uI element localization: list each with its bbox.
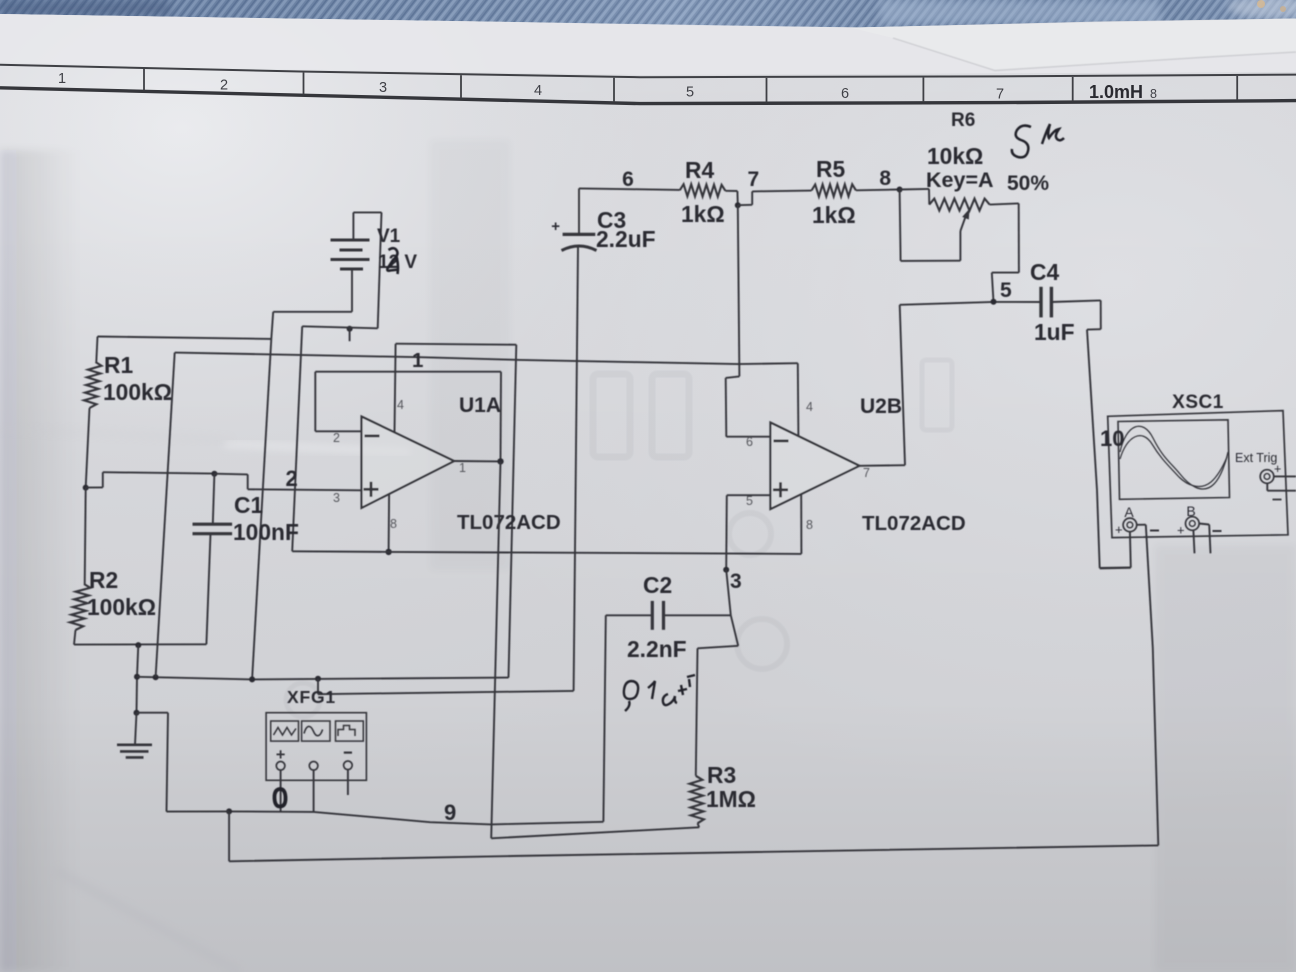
label R3 value [706, 762, 756, 812]
junction U1A output [497, 458, 503, 464]
svg-text:3: 3 [333, 491, 340, 505]
svg-text:XFG1: XFG1 [287, 687, 336, 707]
wire C4 to scope A [1051, 300, 1130, 568]
wire scope A minus drop [1146, 525, 1159, 846]
svg-text:2: 2 [286, 466, 298, 491]
svg-text:C1: C1 [234, 492, 263, 518]
svg-text:3: 3 [730, 570, 742, 593]
label C4 value [1030, 259, 1075, 345]
svg-text:50%: 50% [1007, 172, 1049, 195]
svg-text:+: + [1274, 462, 1281, 476]
svg-text:TL072ACD: TL072ACD [457, 511, 561, 534]
svg-text:10: 10 [1100, 426, 1124, 451]
scope ext trig terminal [1260, 470, 1274, 484]
svg-text:A: A [1124, 504, 1134, 520]
svg-text:R6: R6 [951, 110, 975, 131]
svg-text:1: 1 [459, 461, 466, 475]
svg-text:R1: R1 [104, 352, 133, 378]
svg-text:7: 7 [996, 87, 1004, 103]
wire node 7 to R5 [738, 191, 812, 206]
node 0 handwritten [274, 789, 285, 807]
svg-text:4: 4 [806, 400, 813, 414]
wire node1 drop [156, 353, 175, 678]
wire scope A plus stub [1137, 524, 1146, 526]
junction rail ground column [135, 642, 141, 648]
svg-text:6: 6 [746, 435, 753, 449]
wire U2B plus input loop [726, 495, 770, 570]
wire R2 bottom rail [74, 643, 206, 645]
wire U2B minus input loop [726, 376, 771, 436]
wire opamp supply rail [292, 551, 801, 554]
label R5 value [812, 156, 856, 228]
junction ground row C [249, 676, 255, 682]
wire node 5 [900, 302, 1041, 305]
svg-text:7: 7 [863, 466, 870, 480]
wire node 9 run [229, 811, 603, 824]
wire ext trig stubs [1267, 476, 1296, 490]
svg-text:8: 8 [806, 518, 813, 532]
wire node 3 to R3 [696, 615, 738, 776]
junction node 3 [723, 567, 729, 573]
label R6 value [926, 143, 1049, 195]
wire scope B stubs [1193, 524, 1210, 554]
junction node 5 [991, 299, 997, 305]
wire V1 plus down to opamp supply rail [292, 326, 302, 551]
junction ground mid [134, 710, 140, 716]
op-amp U2B [770, 423, 859, 510]
svg-text:TL072ACD: TL072ACD [862, 512, 966, 535]
wire divider to node 2 [86, 472, 215, 487]
svg-text:10kΩ: 10kΩ [927, 143, 983, 169]
svg-text:Key=A: Key=A [926, 168, 994, 192]
svg-text:100kΩ: 100kΩ [103, 379, 172, 405]
resistor R3 [690, 776, 704, 828]
wire U2B pin4 [797, 363, 800, 436]
svg-text:1MΩ: 1MΩ [706, 786, 756, 812]
wire U1A output [454, 460, 500, 462]
svg-text:B: B [1186, 503, 1195, 519]
wire U1A pin8 [388, 494, 391, 552]
svg-text:1kΩ: 1kΩ [812, 202, 856, 228]
svg-text:1kΩ: 1kΩ [681, 201, 725, 227]
svg-text:+: + [1115, 522, 1123, 537]
svg-text:9: 9 [444, 800, 456, 825]
svg-text:V1: V1 [377, 226, 401, 247]
wire XFG1 plus stub [280, 770, 282, 812]
wire XFG1 minus stub [347, 770, 349, 795]
svg-text:R5: R5 [816, 156, 845, 182]
svg-text:5: 5 [686, 85, 694, 101]
capacitor C3 [562, 188, 597, 691]
svg-text:XSC1: XSC1 [1172, 392, 1224, 413]
svg-text:6: 6 [841, 86, 849, 102]
label C2 value [627, 572, 687, 662]
wire node 1 rail [175, 353, 798, 365]
wire U2B output to node 5 [859, 305, 905, 466]
wire node 6 [579, 188, 680, 190]
junction R1 R2 [83, 485, 89, 491]
svg-text:Ext Trig: Ext Trig [1235, 451, 1277, 465]
op-amp U1A [362, 417, 455, 508]
wire battery minus to R1 top [98, 337, 272, 339]
svg-text:2: 2 [333, 431, 340, 445]
wire V1 plus junction row [302, 326, 378, 341]
handwritten 5k annotation [1012, 124, 1064, 157]
potentiometer R6 [900, 189, 1019, 302]
svg-text:R3: R3 [707, 762, 736, 788]
svg-text:1uF: 1uF [1034, 319, 1075, 345]
resistor R1 [84, 337, 102, 488]
wire node 7 column [738, 205, 740, 376]
svg-text:U2B: U2B [860, 395, 902, 418]
label V1 value [377, 226, 417, 273]
wire R3 bottom to U1A output [491, 461, 699, 838]
svg-text:2: 2 [220, 78, 228, 94]
wire U2B pin8 [800, 494, 802, 554]
svg-text:4: 4 [397, 398, 404, 412]
wire U1A pin4 net [395, 344, 517, 678]
junction supply rail [385, 549, 391, 555]
battery V1 [331, 212, 382, 328]
svg-text:3: 3 [379, 80, 387, 96]
label C1 value [233, 492, 299, 545]
label C3 value [596, 207, 656, 252]
label R2 value [87, 567, 156, 620]
junction node 9 [226, 808, 232, 814]
junction V1 plus [347, 326, 353, 332]
handwritten 2 over V1 value [387, 248, 399, 274]
svg-text:8: 8 [879, 167, 891, 190]
junction ground row B [153, 674, 159, 680]
junction ground top [134, 674, 140, 680]
wire bottom return rail [229, 811, 1158, 861]
wire ground row [137, 677, 509, 680]
svg-text:6: 6 [622, 168, 634, 191]
function generator XFG1 [266, 713, 366, 781]
svg-text:8: 8 [390, 517, 397, 531]
svg-text:C4: C4 [1030, 259, 1059, 285]
svg-text:4: 4 [534, 83, 542, 99]
svg-text:+: + [551, 218, 560, 235]
wire XFG1 common stub [313, 770, 315, 812]
svg-text:2.2nF: 2.2nF [627, 636, 687, 662]
svg-text:1.0mH: 1.0mH [1089, 82, 1143, 102]
resistor R5 [812, 184, 900, 196]
capacitor C1 [193, 474, 233, 645]
svg-text:100nF: 100nF [233, 519, 299, 545]
label R4 value [681, 157, 725, 227]
wire ground row to C3 column [318, 679, 574, 694]
svg-text:1: 1 [412, 349, 423, 372]
resistor R4 [680, 184, 738, 205]
svg-text:R4: R4 [685, 157, 714, 183]
svg-text:1: 1 [58, 71, 66, 87]
capacitor C4 [1041, 287, 1051, 318]
label R1 value [103, 352, 172, 405]
svg-text:8: 8 [1150, 87, 1157, 101]
svg-text:R2: R2 [89, 567, 118, 593]
ground [117, 713, 152, 758]
wire V1 minus to rail [271, 312, 352, 339]
label scope B [1177, 503, 1222, 538]
svg-text:5: 5 [1000, 279, 1012, 302]
wire ground to node 9 run [137, 713, 230, 812]
wire node 3 down [726, 570, 731, 616]
svg-text:100kΩ: 100kΩ [87, 594, 156, 620]
wire U1A feedback box [315, 372, 501, 462]
junction node 8 [897, 187, 903, 193]
svg-text:7: 7 [748, 168, 760, 191]
capacitor C2 [603, 601, 730, 822]
label scope A [1115, 504, 1159, 537]
svg-text:+: + [1177, 523, 1185, 538]
junction node 7 [735, 202, 741, 208]
handwritten 0.1nF annotation [624, 675, 695, 711]
svg-text:2.2uF: 2.2uF [596, 226, 656, 252]
svg-text:U1A: U1A [459, 394, 501, 417]
wire node 2 to opamp U1A input [214, 474, 361, 491]
scope channel B terminal [1186, 517, 1200, 531]
resistor R2 [70, 488, 90, 645]
scope channel A terminal [1123, 518, 1137, 532]
label ext trig [1235, 451, 1282, 500]
oscilloscope XSC1 [1108, 411, 1288, 538]
svg-text:C2: C2 [643, 572, 672, 598]
wire ground column [137, 645, 139, 713]
junction node 2 [211, 471, 217, 477]
junction ground row D [315, 676, 321, 682]
wire ground drop from battery column [252, 339, 271, 680]
